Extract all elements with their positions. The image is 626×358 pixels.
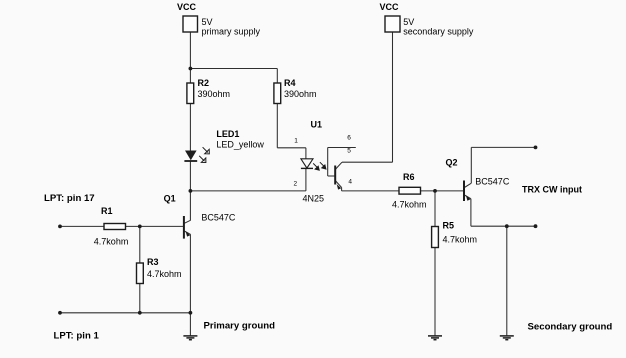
svg-text:secondary supply: secondary supply: [403, 26, 474, 36]
svg-text:4.7kohm: 4.7kohm: [147, 269, 182, 279]
svg-text:R4: R4: [284, 78, 296, 88]
svg-text:R6: R6: [403, 172, 415, 182]
svg-text:Q1: Q1: [164, 193, 176, 203]
svg-text:2: 2: [294, 180, 298, 187]
svg-text:VCC: VCC: [380, 2, 400, 12]
svg-text:Secondary ground: Secondary ground: [528, 321, 613, 332]
svg-text:U1: U1: [311, 119, 323, 129]
svg-text:390ohm: 390ohm: [198, 89, 231, 99]
svg-text:4.7kohm: 4.7kohm: [94, 236, 129, 246]
svg-text:4.7kohm: 4.7kohm: [443, 234, 478, 244]
svg-text:R5: R5: [443, 221, 455, 231]
svg-text:Q2: Q2: [446, 158, 458, 168]
svg-text:R3: R3: [147, 257, 159, 267]
svg-text:BC547C: BC547C: [475, 176, 510, 186]
svg-text:primary supply: primary supply: [202, 26, 261, 36]
svg-text:1: 1: [294, 138, 298, 145]
svg-text:LED1: LED1: [216, 129, 239, 139]
svg-text:VCC: VCC: [177, 2, 197, 12]
svg-text:Primary ground: Primary ground: [204, 321, 276, 332]
svg-text:4: 4: [348, 178, 352, 185]
svg-text:R1: R1: [101, 206, 113, 216]
svg-text:TRX CW input: TRX CW input: [522, 184, 582, 194]
svg-text:6: 6: [347, 135, 351, 142]
svg-text:LPT: pin 1: LPT: pin 1: [54, 331, 100, 342]
svg-text:4N25: 4N25: [303, 193, 325, 203]
svg-text:LPT: pin 17: LPT: pin 17: [44, 193, 95, 204]
svg-text:5: 5: [347, 147, 351, 154]
svg-text:R2: R2: [198, 78, 210, 88]
svg-text:4.7kohm: 4.7kohm: [392, 200, 427, 210]
svg-text:BC547C: BC547C: [201, 212, 236, 222]
svg-text:390ohm: 390ohm: [284, 89, 317, 99]
svg-text:LED_yellow: LED_yellow: [216, 140, 264, 150]
